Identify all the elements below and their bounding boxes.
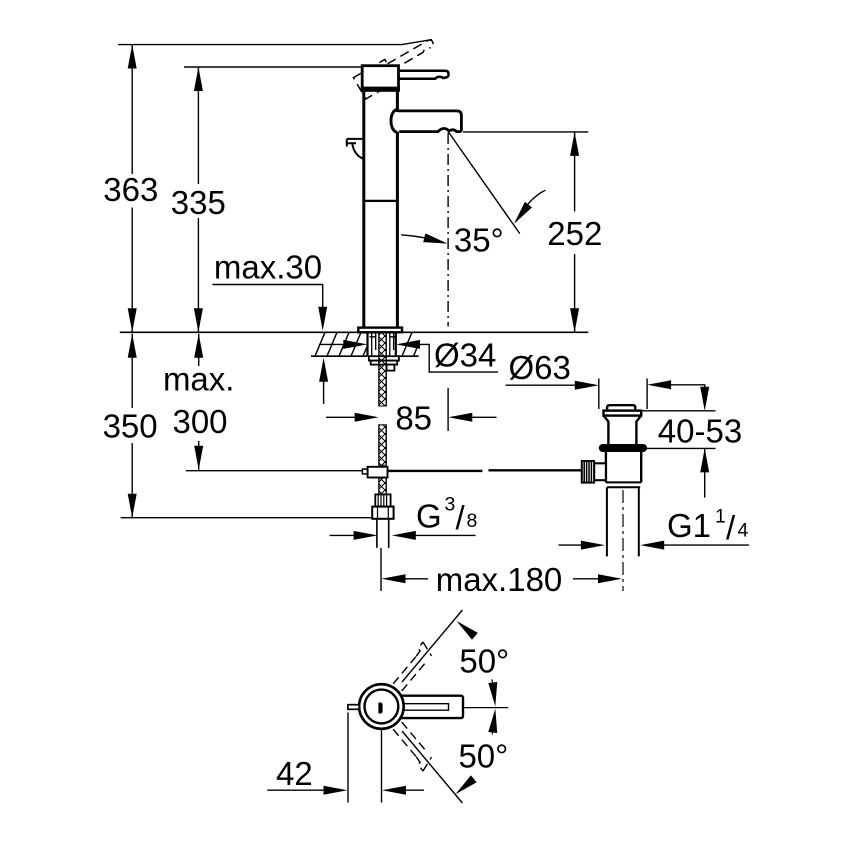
arrow 363 top <box>128 45 137 69</box>
pop-up waste drain <box>582 405 647 591</box>
O34 left arrow tail <box>319 343 345 345</box>
arrow G38 right <box>392 531 416 540</box>
drain cap <box>607 405 635 410</box>
body inner circle <box>365 690 399 724</box>
upper dashed lever <box>390 642 435 691</box>
dimension labels <box>103 171 749 792</box>
svg-text:363: 363 <box>103 171 158 208</box>
arrow G38 left <box>354 531 378 540</box>
svg-text:8: 8 <box>467 510 478 532</box>
dim line 363 <box>131 45 133 333</box>
40-53 upper extension line <box>641 410 715 412</box>
pop-up rod top view <box>348 705 359 710</box>
dim 42 line <box>267 789 424 791</box>
dashed raised handle <box>353 34 440 99</box>
svg-text:G: G <box>416 497 442 534</box>
mounting nut stack <box>369 356 399 360</box>
svg-text:Ø34: Ø34 <box>434 337 496 374</box>
arrow G114 left <box>581 541 605 550</box>
arrow 42 left <box>324 786 348 795</box>
dim line 252 <box>574 132 576 332</box>
jet centerline below counter <box>447 388 449 431</box>
arrow 350 bottom <box>128 494 137 518</box>
arrow 252 bottom <box>570 308 579 332</box>
drain seal ring <box>599 444 647 452</box>
top view <box>348 610 508 803</box>
arrow O63 left <box>575 381 599 390</box>
max.30 lower arrow tail <box>323 380 325 404</box>
O63 label underline / left arrow tail <box>506 384 582 386</box>
arrow 50 upper at centerline <box>488 682 499 707</box>
extension line 252 top (from spout) <box>463 131 588 133</box>
35 deg leader arc right <box>516 190 545 221</box>
countertop line <box>120 331 589 333</box>
drain flange cone <box>604 416 642 444</box>
dim line 350 <box>131 334 133 518</box>
arrow 50 upper line <box>454 617 478 639</box>
cartridge center mark <box>378 703 382 714</box>
supply pipe <box>377 519 389 548</box>
lever top view inner lines <box>402 704 449 711</box>
counter hatching <box>315 332 419 356</box>
svg-text:350: 350 <box>103 407 158 444</box>
shank top washers <box>370 336 397 338</box>
arrow O63 right <box>647 380 671 389</box>
350 reference line bottom <box>121 517 376 519</box>
neck right edge <box>396 90 399 112</box>
tailpipe centerline <box>622 490 624 591</box>
svg-text:G1: G1 <box>667 507 711 544</box>
tailpipe <box>607 487 639 556</box>
handle box bottom bar <box>361 87 400 91</box>
arrow 252 top <box>570 132 579 156</box>
max.30 leader <box>212 285 322 311</box>
dim line max.300 <box>198 334 200 470</box>
svg-text:max.180: max.180 <box>436 561 563 598</box>
solid lever <box>399 71 449 79</box>
base plate <box>358 328 402 333</box>
arrow O34 right <box>396 340 420 349</box>
shank inner lines <box>372 333 394 356</box>
pop-up linkage connector <box>362 469 367 474</box>
arrow 40-53 top <box>700 387 709 411</box>
mounting shank walls <box>368 332 396 356</box>
arrow 85 right <box>448 413 472 422</box>
arrow 363 bottom <box>128 308 137 332</box>
svg-text:max.30: max.30 <box>214 248 322 285</box>
arrow 85 left <box>355 413 379 422</box>
hose ferrule <box>375 494 390 506</box>
pop-up rod segment 1 <box>388 470 483 472</box>
arrow 50 lower line <box>453 775 477 797</box>
faucet side view <box>347 34 582 548</box>
arrow 350 top <box>128 334 137 358</box>
arrow max180 left <box>382 574 406 583</box>
arrow 35 right leader <box>510 202 532 227</box>
arrow 335 top <box>194 67 203 91</box>
extension line top (to raised lever tip) <box>118 40 432 45</box>
body right edge below spout <box>396 132 399 328</box>
svg-text:/: / <box>726 509 736 546</box>
svg-text:35°: 35° <box>454 221 504 258</box>
svg-text:335: 335 <box>171 184 226 221</box>
arrowheads <box>128 45 710 795</box>
O34 leader to label <box>419 344 498 372</box>
svg-text:max.: max. <box>163 361 235 398</box>
drain flange top <box>604 411 642 416</box>
drain coupling ring <box>606 482 641 487</box>
body joint line <box>364 200 398 202</box>
counter bottom line <box>311 355 419 357</box>
pop-up rod hook <box>347 139 364 147</box>
arrow max300 bottom <box>194 446 203 470</box>
svg-text:252: 252 <box>547 215 602 252</box>
pop-up rod segment 2 <box>489 469 582 471</box>
angle arrow tails <box>492 679 493 734</box>
drain body <box>606 452 641 482</box>
max.180 ext line left <box>380 548 382 591</box>
horizontal centerline <box>464 707 508 709</box>
arrow max300 top <box>194 334 203 358</box>
arrow max30 up <box>319 358 328 382</box>
O63 extension lines <box>599 379 647 410</box>
svg-text:40-53: 40-53 <box>658 413 742 450</box>
upper 50deg swing line <box>402 610 462 682</box>
35 degree jet line <box>448 132 520 234</box>
svg-text:50°: 50° <box>458 738 508 775</box>
svg-text:50°: 50° <box>459 643 509 680</box>
arrow 42 right <box>382 786 406 795</box>
svg-text:1: 1 <box>715 506 726 528</box>
lower 50deg swing line <box>402 731 462 803</box>
G1 1/4 dim line left tail <box>558 544 581 546</box>
svg-text:42: 42 <box>276 755 313 792</box>
O63 right arrow tail and 40-53 dim line upper <box>664 385 705 388</box>
dim 42 ext lines <box>348 713 382 803</box>
svg-text:4: 4 <box>738 520 749 542</box>
arrow 335 bottom <box>194 308 203 332</box>
svg-text:/: / <box>456 499 466 536</box>
svg-text:Ø63: Ø63 <box>509 349 571 386</box>
arrow O34 left <box>343 340 367 349</box>
drain side port <box>594 463 606 480</box>
svg-text:300: 300 <box>172 403 227 440</box>
arrow G114 right <box>640 541 664 550</box>
lower dashed lever <box>390 722 435 771</box>
lever top view outer <box>397 696 463 718</box>
dim 85 right arrow tail <box>470 416 497 418</box>
arrow 50 lower at centerline <box>488 708 499 733</box>
jet centerline dash-dot <box>447 133 449 327</box>
body left edge <box>362 90 365 327</box>
arrow 40-53 bottom <box>700 448 709 472</box>
max.180 dim line <box>405 578 600 580</box>
arrow max180 right <box>598 574 622 583</box>
G3/8 dim line left <box>330 534 356 536</box>
dim line 335 <box>197 67 199 332</box>
40-53 lower extension line / label underline <box>642 447 716 449</box>
arrow max30 down <box>318 307 327 331</box>
spout outline with aerator bump <box>397 111 461 132</box>
handle box <box>362 66 398 91</box>
spout left cap bulge <box>391 110 397 133</box>
40-53 lower dim line <box>704 448 706 497</box>
extension line 335 top <box>184 66 361 68</box>
arrow 35 left leader <box>423 233 448 248</box>
svg-text:3: 3 <box>445 494 456 516</box>
G3/8 dim line right <box>414 534 476 536</box>
35 deg leader arc left <box>401 235 444 243</box>
G3/8 nut <box>372 507 393 519</box>
knurled nut <box>582 461 594 483</box>
svg-text:85: 85 <box>395 400 432 437</box>
dim 85 left arrow tail <box>326 416 356 418</box>
G1 1/4 dim line right tail <box>664 544 749 546</box>
braided hose upper <box>379 333 386 494</box>
max.300 reference line <box>186 470 363 472</box>
body outer circle <box>359 684 404 729</box>
